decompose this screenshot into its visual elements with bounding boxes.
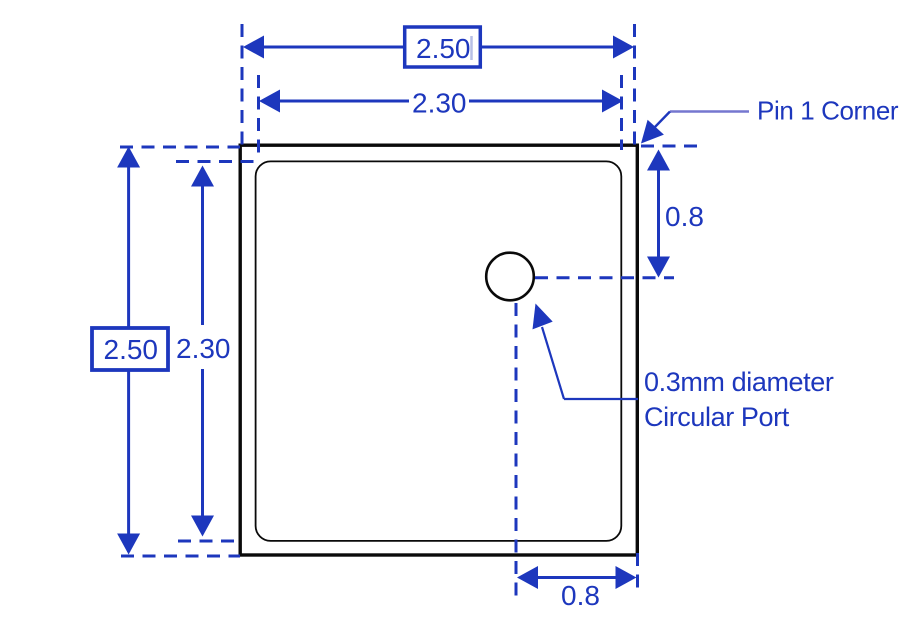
text Circular Port (644, 402, 790, 432)
leader line Pin 1 Corner (diagonal with arrowhead) (641, 112, 670, 144)
svg-text:2.30: 2.30 (176, 333, 231, 364)
extension line top-left inner (vertical dashed) (257, 75, 260, 158)
extension line right top corner (horizontal dashed) (641, 145, 700, 148)
dimension 2.50 horizontal top: line (243, 36, 634, 59)
text 0.3mm diameter (644, 367, 834, 397)
leader line Circular Port (diagonal with arrowhead) (533, 304, 565, 400)
dimension 2.50 horizontal top: label box (405, 27, 481, 67)
svg-text:Pin 1 Corner: Pin 1 Corner (757, 96, 899, 126)
svg-text:0.3mm diameter: 0.3mm diameter (644, 367, 834, 397)
extension line top-right inner (vertical dashed) (620, 75, 623, 150)
svg-text:2.30: 2.30 (412, 88, 467, 119)
extension line left inner bottom (horizontal dashed) (178, 540, 241, 543)
text cursor artifact after 2.50 (470, 36, 473, 60)
leader line Pin 1 Corner (horizontal light segment) (670, 110, 749, 112)
extension line left outer top (horizontal dashed) (120, 146, 240, 149)
dimension 2.50 vertical left: line (117, 147, 140, 555)
dimension 2.50 vertical left: label box (92, 328, 168, 370)
leader line Circular Port (horizontal segment) (564, 398, 638, 400)
svg-text:0.8: 0.8 (665, 201, 704, 232)
extension line top-left outer (vertical dashed) (241, 24, 244, 146)
svg-text:Circular Port: Circular Port (644, 402, 790, 432)
text Pin 1 Corner (757, 96, 899, 126)
dimension 0.8 vertical right (647, 150, 704, 278)
extension line left outer bottom (horizontal dashed) (121, 555, 240, 558)
extension line from circular port to right (horizontal dashed) (535, 276, 674, 279)
svg-text:0.8: 0.8 (561, 580, 600, 611)
extension line bottom-right corner down (vertical dashed) (636, 553, 639, 596)
outer package outline (240, 145, 637, 555)
extension line left inner top (horizontal dashed) (176, 160, 255, 163)
circular port (486, 253, 534, 301)
dimension 2.30 horizontal top (259, 88, 623, 119)
dimension 2.30 vertical left (176, 166, 231, 537)
svg-text:2.50: 2.50 (416, 33, 471, 64)
extension line from circular port down (vertical dashed) (515, 303, 518, 599)
extension line top-right outer (vertical dashed) (633, 24, 636, 146)
dimension 0.8 horizontal bottom (517, 566, 637, 611)
inner cavity outline (256, 161, 622, 541)
svg-text:2.50: 2.50 (104, 334, 159, 365)
